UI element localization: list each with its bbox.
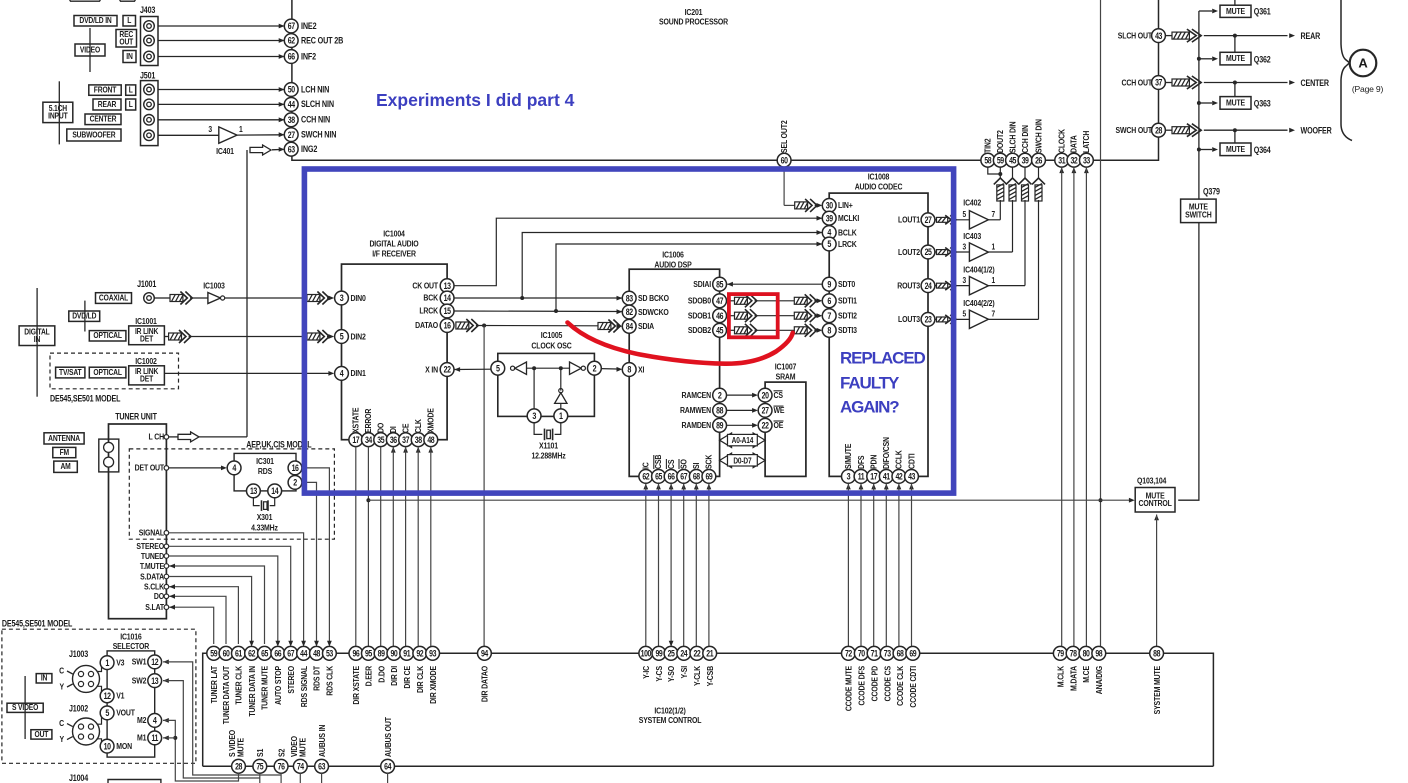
svg-text:32: 32	[1070, 156, 1078, 166]
svg-text:48: 48	[313, 649, 321, 659]
svg-text:IC102(1/2): IC102(1/2)	[654, 706, 686, 716]
inverter osc left	[510, 362, 526, 374]
wire coax 3	[307, 292, 334, 305]
svg-text:84: 84	[626, 322, 634, 332]
wire IC1008 CCODE MUTE	[846, 484, 851, 647]
wire IC1008 CCODE CLK	[897, 484, 902, 647]
svg-text:DIGITAL AUDIO: DIGITAL AUDIO	[369, 239, 418, 249]
pin 5 DIN2	[335, 330, 367, 344]
wire IC1008 CCODE CS	[884, 484, 889, 647]
pin 24 ROUT3	[897, 279, 935, 293]
wire SIGNAL	[139, 528, 306, 647]
svg-text:90: 90	[390, 649, 398, 659]
svg-text:35: 35	[377, 435, 385, 445]
pin 22 OE	[758, 418, 783, 432]
wire SDOB0 to SDTI1	[727, 294, 823, 307]
svg-text:XI: XI	[638, 365, 644, 375]
svg-text:67: 67	[288, 21, 296, 31]
wire DIR DATAO drop	[483, 326, 485, 647]
svg-text:68: 68	[693, 472, 701, 482]
svg-text:WOOFER: WOOFER	[1301, 126, 1332, 136]
wire IC1006 Y-CLK	[694, 484, 699, 647]
op-amp IC1005 CLOCK OSC	[498, 330, 595, 416]
wire ING2 feed	[247, 145, 285, 437]
label TV/SAT	[56, 367, 85, 378]
svg-text:DET OUT: DET OUT	[135, 463, 165, 473]
svg-text:J1002: J1002	[69, 704, 89, 714]
IC102 label	[639, 706, 702, 726]
annotation title	[376, 90, 575, 110]
pin 4 M2	[137, 714, 162, 728]
svg-text:SCK: SCK	[704, 454, 714, 469]
svg-text:27: 27	[288, 130, 296, 140]
wire LRCK to SDWCKO	[454, 242, 822, 315]
svg-text:TUNER UNIT: TUNER UNIT	[115, 412, 157, 422]
AEP dashed box	[129, 449, 334, 539]
svg-text:AUDIO CODEC: AUDIO CODEC	[855, 182, 903, 192]
wire TUNED	[141, 551, 280, 647]
pin 16 rds	[288, 461, 302, 475]
pin 13 rds	[247, 484, 261, 498]
svg-text:DI: DI	[388, 426, 398, 433]
svg-text:DVD/LD IN: DVD/LD IN	[79, 15, 111, 25]
svg-text:IC1007: IC1007	[775, 362, 797, 372]
svg-text:S2: S2	[277, 748, 287, 757]
connector J1003	[59, 649, 99, 692]
svg-text:J1003: J1003	[69, 649, 89, 659]
pin 67 INE2	[284, 19, 317, 33]
svg-text:AM: AM	[60, 461, 70, 471]
wire IC1006 Y-IC	[643, 484, 648, 647]
pin 30 LIN+	[822, 199, 853, 213]
svg-text:SI: SI	[691, 463, 701, 469]
svg-text:13: 13	[250, 486, 258, 496]
pin 45 SDOB2	[688, 323, 727, 337]
op-amp IC201 SOUND PROCESSOR outline	[292, 0, 1159, 160]
svg-text:(Page 9): (Page 9)	[1352, 84, 1384, 94]
svg-text:72: 72	[845, 649, 853, 659]
wire IC1006 Y-CSB	[707, 484, 712, 647]
wire RAMDEN to OE	[727, 423, 758, 428]
node DIR CE pin 91	[400, 646, 414, 688]
svg-text:S VIDEO: S VIDEO	[12, 703, 38, 713]
pin 20 CS	[758, 388, 783, 402]
svg-text:96: 96	[352, 649, 360, 659]
pin 4 rds	[227, 461, 241, 475]
svg-text:ING2: ING2	[301, 144, 318, 154]
svg-text:41: 41	[883, 472, 891, 482]
svg-text:12: 12	[151, 657, 159, 667]
svg-text:31: 31	[1058, 156, 1066, 166]
node D.EER pin 95	[362, 646, 376, 686]
svg-text:LOUT2: LOUT2	[898, 247, 921, 257]
pin 27 LOUT1	[898, 213, 935, 227]
op-amp IC1016 SELECTOR	[107, 632, 155, 757]
pin 13 CK OUT	[412, 279, 454, 293]
wire coax 1	[154, 292, 192, 305]
wire 26 column	[988, 167, 1045, 319]
wire 48 up	[428, 447, 433, 647]
op-amp IC402	[963, 198, 996, 229]
wire rds16 to 53	[302, 468, 332, 647]
node TUNER MUTE pin 65	[258, 646, 272, 710]
svg-text:1: 1	[992, 275, 996, 285]
label L rear	[126, 99, 136, 110]
connector J1002	[59, 704, 99, 745]
svg-text:OE: OE	[774, 420, 784, 430]
svg-text:14: 14	[444, 293, 452, 303]
svg-text:SLCH DIN: SLCH DIN	[1008, 121, 1018, 153]
pin 62 REC OUT 2B	[284, 34, 343, 48]
svg-text:DO: DO	[154, 591, 164, 601]
svg-text:IN: IN	[41, 673, 47, 683]
pin 3 osc	[527, 409, 541, 423]
svg-text:39: 39	[826, 214, 834, 224]
svg-text:ANA/DIG: ANA/DIG	[1094, 666, 1104, 694]
node VIDEO MUTE pin 74	[289, 736, 307, 773]
pin 8 SDTI3	[822, 323, 857, 337]
wire ROUT3 out	[935, 281, 970, 290]
svg-text:3: 3	[208, 124, 212, 134]
svg-text:SDIA: SDIA	[638, 321, 654, 331]
node Y-SO pin 25	[664, 646, 678, 682]
node Y-CS pin 99	[652, 646, 666, 681]
pin 13 SW2	[132, 674, 162, 688]
svg-text:60: 60	[781, 156, 789, 166]
annotation red curve	[568, 323, 793, 364]
svg-text:SDOB2: SDOB2	[688, 325, 712, 335]
bus D0-D7	[720, 453, 766, 468]
svg-text:94: 94	[481, 649, 489, 659]
svg-text:IC301: IC301	[256, 456, 274, 466]
svg-text:D.EER: D.EER	[364, 666, 374, 687]
svg-text:DIFO/CSN: DIFO/CSN	[881, 437, 891, 469]
svg-text:SEL OUT2: SEL OUT2	[779, 120, 789, 153]
label DVD/LD	[69, 301, 100, 332]
node RDS CLK pin 53	[323, 646, 337, 695]
svg-text:RDS SIGNAL: RDS SIGNAL	[299, 666, 309, 708]
node S2 pin 76	[274, 748, 288, 773]
crystal X1101	[531, 423, 565, 461]
wire 17 down	[355, 447, 357, 647]
node CCODE CS pin 73	[880, 646, 894, 701]
svg-text:34: 34	[365, 435, 373, 445]
pin 63 ING2	[284, 142, 317, 156]
label VIDEO	[75, 28, 105, 72]
wire S.DATA	[140, 572, 254, 647]
svg-text:SDOB1: SDOB1	[688, 311, 712, 321]
svg-text:23: 23	[925, 315, 933, 325]
svg-text:22: 22	[693, 649, 701, 659]
wire bus lower	[203, 765, 1214, 767]
svg-text:7: 7	[992, 309, 996, 319]
wire LATCH line	[1084, 167, 1089, 646]
svg-text:INE2: INE2	[301, 21, 317, 31]
svg-text:CE: CE	[401, 424, 411, 433]
svg-text:SDTI1: SDTI1	[838, 296, 858, 306]
svg-text:ROUT3: ROUT3	[897, 281, 920, 291]
pin 88 RAMWEN	[680, 404, 727, 418]
svg-text:45: 45	[716, 326, 724, 336]
wire 36 up	[391, 447, 396, 647]
svg-text:S/MUTE: S/MUTE	[843, 444, 853, 469]
svg-text:28: 28	[1155, 126, 1163, 136]
svg-text:27: 27	[925, 215, 933, 225]
svg-text:DIR XMODE: DIR XMODE	[428, 666, 438, 704]
svg-text:50: 50	[288, 85, 296, 95]
pin 15 LRCK	[419, 304, 454, 318]
svg-text:66: 66	[274, 649, 282, 659]
svg-text:MUTE: MUTE	[1226, 53, 1245, 63]
svg-text:L: L	[129, 85, 133, 95]
svg-text:CSB: CSB	[653, 454, 663, 469]
svg-text:13: 13	[444, 281, 452, 291]
svg-text:FRONT: FRONT	[94, 85, 117, 95]
node Y-SI pin 24	[677, 646, 691, 678]
wire ANA/DIG line	[1099, 0, 1103, 646]
wire J501-2 to pin 44	[158, 102, 285, 107]
svg-text:95: 95	[365, 649, 373, 659]
svg-text:CCODE CS: CCODE CS	[883, 666, 893, 701]
svg-text:38: 38	[288, 115, 296, 125]
wire DATAO to SDIA	[456, 319, 622, 333]
wire STEREO	[136, 541, 293, 646]
svg-text:CLOCK OSC: CLOCK OSC	[531, 341, 572, 351]
svg-text:STEREO: STEREO	[136, 541, 164, 551]
pin 2 RAMCEN	[681, 388, 726, 402]
svg-text:SDWCKO: SDWCKO	[638, 307, 669, 317]
pin 50 LCH NIN	[284, 83, 329, 97]
pin 83 SD BCKO	[622, 291, 669, 305]
svg-text:DIR CE: DIR CE	[402, 666, 412, 689]
svg-text:IC401: IC401	[216, 146, 234, 156]
node LATCH	[1080, 130, 1094, 167]
wire 34 down	[366, 447, 370, 647]
svg-text:OPTICAL: OPTICAL	[93, 331, 122, 341]
inverter IC1003	[203, 281, 225, 304]
pin 11 M1	[137, 731, 162, 745]
node A page ref	[1341, 0, 1384, 141]
annotation REPLACED FAULTY AGAIN	[840, 349, 926, 417]
wire IC1008 CCODE PD	[871, 484, 876, 647]
wire CENTER line	[1204, 78, 1329, 88]
svg-text:SOUND PROCESSOR: SOUND PROCESSOR	[659, 17, 728, 27]
svg-text:TIN2: TIN2	[983, 138, 993, 153]
svg-text:42: 42	[895, 472, 903, 482]
svg-text:CCLK: CCLK	[894, 450, 904, 469]
svg-text:17: 17	[352, 435, 360, 445]
svg-text:11: 11	[858, 472, 865, 482]
svg-text:VOUT: VOUT	[116, 708, 135, 718]
pin 66 INF2	[284, 50, 316, 64]
svg-text:26: 26	[1035, 156, 1043, 166]
svg-text:IC1005: IC1005	[541, 330, 563, 340]
svg-text:78: 78	[1070, 649, 1078, 659]
wire optical 2	[307, 330, 334, 343]
svg-text:80: 80	[1083, 649, 1091, 659]
node Y-CLK pin 22	[690, 646, 704, 686]
op-amp IC1002 IR LINK DET	[129, 356, 165, 384]
svg-text:DE545,SE501 MODEL: DE545,SE501 MODEL	[50, 394, 120, 404]
svg-text:DOUT2: DOUT2	[995, 130, 1005, 153]
node S1 pin 75	[253, 748, 267, 773]
svg-text:88: 88	[1153, 649, 1161, 659]
wire stub 64	[387, 773, 389, 783]
label IN	[123, 51, 136, 63]
svg-text:SRAM: SRAM	[776, 372, 796, 382]
svg-text:24: 24	[925, 281, 933, 291]
svg-text:70: 70	[858, 649, 866, 659]
wire M1	[163, 736, 175, 741]
svg-text:39: 39	[1022, 156, 1030, 166]
pin 46 SDOB1	[688, 309, 727, 323]
wire 38 up	[416, 447, 421, 647]
node CLOCK	[1055, 129, 1069, 167]
svg-text:4.33MHz: 4.33MHz	[251, 523, 278, 533]
pin 39 MCLKI	[822, 211, 859, 225]
IC1004 bottom pins	[349, 408, 438, 447]
svg-text:X IN: X IN	[425, 365, 438, 375]
svg-text:59: 59	[997, 156, 1005, 166]
svg-text:DVD/LD: DVD/LD	[72, 311, 97, 321]
label OUT svideo	[31, 729, 52, 739]
node AUBUS OUT pin 64	[381, 717, 395, 773]
wire 59 column	[988, 167, 1006, 220]
svg-text:DIN0: DIN0	[351, 293, 367, 303]
wire rds2 to 48	[302, 482, 319, 646]
svg-text:L: L	[127, 15, 131, 25]
svg-text:DE545,SE501 MODEL: DE545,SE501 MODEL	[2, 619, 72, 629]
svg-text:66: 66	[668, 472, 676, 482]
IC201 label	[659, 7, 728, 26]
svg-text:SDOB0: SDOB0	[688, 296, 712, 306]
op-amp IC301 RDS	[234, 453, 296, 491]
svg-text:47: 47	[716, 296, 724, 306]
svg-text:15: 15	[444, 306, 452, 316]
node SYSTEM MUTE pin 88	[1150, 646, 1164, 714]
svg-text:92: 92	[416, 649, 424, 659]
label DE545 model	[50, 394, 120, 404]
svg-text:FAULTY: FAULTY	[840, 373, 900, 392]
svg-text:Y-CLK: Y-CLK	[692, 666, 702, 686]
node SEL OUT2	[777, 120, 791, 167]
svg-text:Q363: Q363	[1254, 99, 1271, 109]
svg-text:DIN1: DIN1	[351, 368, 367, 378]
node TIN2	[981, 138, 995, 167]
connector J403	[140, 5, 158, 65]
svg-text:T.MUTE: T.MUTE	[140, 561, 164, 571]
wire J501-3 to pin 38	[158, 117, 285, 122]
wire optical 1	[164, 330, 307, 343]
svg-text:67: 67	[680, 472, 688, 482]
pin 38 CCH NIN	[284, 113, 330, 127]
svg-text:TUNER LAT: TUNER LAT	[209, 666, 219, 704]
pin 4 BCLK	[822, 226, 857, 240]
svg-text:98: 98	[1095, 649, 1103, 659]
pin 14 rds	[268, 484, 282, 498]
svg-text:M.CE: M.CE	[1081, 666, 1091, 683]
svg-text:LOUT3: LOUT3	[898, 314, 921, 324]
svg-text:D.DO: D.DO	[377, 666, 387, 683]
wire J1003 to pins	[97, 663, 102, 696]
node DIR XSTATE pin 96	[349, 646, 363, 704]
wire LOUT1 out	[935, 215, 970, 224]
op-amp IC1008 AUDIO CODEC	[829, 172, 928, 477]
wire SDOB2 to SDTI3	[727, 324, 823, 337]
tuner unit box	[109, 412, 167, 619]
svg-text:CCODE MUTE: CCODE MUTE	[844, 666, 854, 711]
wire IC1006 Y-SI	[681, 484, 686, 647]
label OPTICAL	[89, 331, 126, 341]
svg-text:REAR: REAR	[1301, 31, 1321, 41]
svg-text:SWCH DIN: SWCH DIN	[1034, 119, 1044, 153]
svg-text:C: C	[59, 718, 64, 728]
pin 16 DATAO	[415, 319, 454, 333]
svg-text:CCODE CDTI: CCODE CDTI	[908, 666, 918, 708]
pin 12 SW1	[132, 655, 162, 669]
svg-text:SW2: SW2	[132, 676, 147, 686]
wire J403-1 to pin 67	[158, 24, 285, 29]
wire system mute up	[1154, 515, 1159, 647]
svg-text:CDTI: CDTI	[907, 453, 917, 469]
pin 12 V1	[100, 689, 125, 703]
svg-text:CCODE CLK: CCODE CLK	[895, 666, 905, 706]
wire LOUT3 out	[935, 315, 970, 324]
svg-text:25: 25	[668, 649, 676, 659]
svg-text:LCH NIN: LCH NIN	[301, 85, 329, 95]
svg-text:TUNER MUTE: TUNER MUTE	[260, 666, 270, 710]
svg-text:XSTATE: XSTATE	[351, 408, 361, 433]
wire SDT0 to SDIAI	[727, 282, 822, 287]
svg-text:Y-SO: Y-SO	[666, 666, 676, 682]
svg-text:LOUT1: LOUT1	[898, 215, 921, 225]
svg-text:3: 3	[963, 242, 967, 252]
svg-text:I/F RECEIVER: I/F RECEIVER	[372, 249, 416, 259]
connector J1004	[69, 773, 161, 783]
node SLCH DIN	[1006, 121, 1020, 167]
label CENTER	[85, 114, 121, 125]
svg-text:99: 99	[655, 649, 663, 659]
wire J1002 to pins	[97, 713, 102, 746]
node DIR XMODE pin 93	[426, 646, 440, 704]
svg-text:89: 89	[378, 649, 386, 659]
wire SDOB1 to SDTI2	[727, 309, 823, 322]
svg-text:33: 33	[1083, 156, 1091, 166]
svg-text:DET: DET	[140, 334, 153, 344]
svg-text:ERROR: ERROR	[363, 408, 373, 433]
node RDS SIGNAL pin 44	[297, 646, 311, 707]
op-amp IC1001 IR LINK DET	[129, 316, 165, 344]
pin 27 SWCH NIN	[284, 128, 336, 142]
wire J403-2 to pin 62	[158, 38, 285, 43]
svg-text:STEREO: STEREO	[286, 666, 296, 694]
svg-text:SW1: SW1	[132, 657, 147, 667]
svg-text:IN: IN	[34, 334, 40, 344]
svg-text:SD BCKO: SD BCKO	[638, 293, 669, 303]
svg-text:MUTE: MUTE	[236, 738, 246, 757]
svg-text:AGAIN?: AGAIN?	[840, 398, 899, 417]
label OPTICAL tvsat	[89, 367, 126, 378]
svg-text:5: 5	[963, 309, 967, 319]
svg-text:IC403: IC403	[963, 231, 981, 241]
pin 1 osc	[554, 409, 568, 423]
svg-text:AUDIO DSP: AUDIO DSP	[654, 260, 691, 270]
svg-text:BCLK: BCLK	[838, 228, 857, 238]
label IN svideo	[36, 673, 52, 683]
svg-text:M1: M1	[137, 733, 147, 743]
svg-text:27: 27	[762, 406, 770, 416]
transistor Q364 mute	[1199, 130, 1271, 155]
